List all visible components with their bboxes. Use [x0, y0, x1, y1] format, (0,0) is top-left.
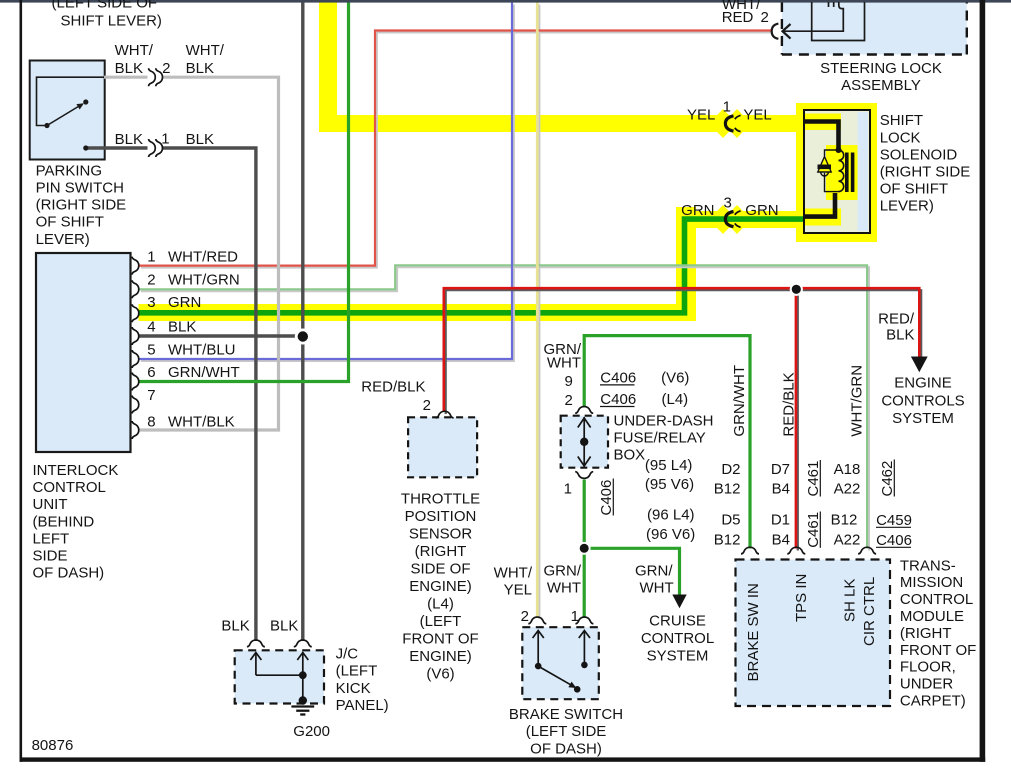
svg-text:(LEFT SIDE OF: (LEFT SIDE OF	[52, 0, 158, 12]
svg-text:BLK: BLK	[186, 60, 214, 77]
svg-text:MISSION: MISSION	[900, 574, 963, 591]
svg-text:LEVER): LEVER)	[36, 231, 90, 248]
svg-text:C459: C459	[876, 512, 912, 529]
svg-text:RED/: RED/	[878, 311, 915, 328]
svg-text:3: 3	[147, 294, 155, 311]
svg-text:TRANS-: TRANS-	[900, 557, 956, 574]
svg-text:9: 9	[564, 373, 572, 390]
svg-text:BLK: BLK	[168, 319, 196, 336]
svg-text:BLK: BLK	[221, 618, 249, 635]
svg-text:J/C: J/C	[336, 646, 359, 663]
svg-text:BLK: BLK	[186, 131, 214, 148]
svg-text:7: 7	[147, 387, 155, 404]
svg-text:2: 2	[162, 60, 170, 77]
svg-text:LEVER): LEVER)	[880, 198, 934, 215]
svg-text:A18: A18	[834, 461, 861, 478]
svg-text:PARKING: PARKING	[36, 163, 102, 180]
svg-text:C406: C406	[598, 480, 615, 516]
svg-text:2: 2	[521, 608, 529, 625]
svg-text:G200: G200	[293, 723, 330, 740]
svg-text:D5: D5	[721, 512, 740, 529]
svg-text:A22: A22	[834, 481, 861, 498]
svg-text:TPS IN: TPS IN	[793, 574, 810, 622]
svg-text:UNDER-DASH: UNDER-DASH	[614, 413, 714, 430]
svg-text:D1: D1	[771, 512, 790, 529]
svg-text:WHT: WHT	[547, 355, 581, 372]
svg-text:WHT: WHT	[547, 579, 581, 596]
svg-text:SENSOR: SENSOR	[409, 526, 473, 543]
svg-text:(RIGHT: (RIGHT	[415, 543, 467, 560]
svg-text:ENGINE: ENGINE	[894, 375, 952, 392]
svg-text:(L4): (L4)	[427, 596, 454, 613]
svg-text:BRAKE SWITCH: BRAKE SWITCH	[509, 706, 623, 723]
svg-text:FUSE/RELAY: FUSE/RELAY	[614, 430, 706, 447]
svg-text:CONTROLS: CONTROLS	[881, 392, 964, 409]
svg-text:2: 2	[147, 272, 155, 289]
svg-text:ENGINE): ENGINE)	[409, 648, 472, 665]
svg-text:4: 4	[147, 319, 155, 336]
svg-text:CONTROL: CONTROL	[900, 591, 973, 608]
svg-text:BRAKE SW IN: BRAKE SW IN	[745, 583, 762, 681]
svg-text:(V6): (V6)	[661, 369, 689, 386]
svg-text:SOLENOID: SOLENOID	[880, 146, 958, 163]
svg-text:(RIGHT: (RIGHT	[900, 625, 952, 642]
svg-text:WHT/GRN: WHT/GRN	[848, 365, 865, 437]
svg-text:SIDE: SIDE	[33, 547, 68, 564]
svg-text:(LEFT: (LEFT	[336, 663, 378, 680]
svg-text:CONTROL: CONTROL	[641, 630, 714, 647]
svg-text:WHT/: WHT/	[494, 565, 533, 582]
svg-text:YEL: YEL	[504, 581, 532, 598]
svg-text:WHT/GRN: WHT/GRN	[168, 272, 240, 289]
svg-text:BOX: BOX	[614, 447, 646, 464]
svg-text:B4: B4	[772, 532, 790, 549]
svg-text:B12: B12	[831, 512, 858, 529]
svg-text:WHT/BLU: WHT/BLU	[168, 342, 236, 359]
svg-text:YEL: YEL	[687, 107, 715, 124]
svg-text:WHT/BLK: WHT/BLK	[168, 414, 235, 431]
svg-text:PANEL): PANEL)	[336, 697, 389, 714]
svg-text:WHT/RED: WHT/RED	[168, 249, 238, 266]
svg-text:ENGINE): ENGINE)	[409, 578, 472, 595]
svg-text:A22: A22	[834, 532, 861, 549]
svg-text:GRN/: GRN/	[544, 563, 582, 580]
svg-text:5: 5	[147, 342, 155, 359]
svg-text:SH LK: SH LK	[842, 579, 859, 622]
svg-text:C406: C406	[600, 391, 636, 408]
svg-text:CRUISE: CRUISE	[649, 613, 706, 630]
svg-text:(95 V6): (95 V6)	[645, 476, 694, 493]
svg-text:(V6): (V6)	[426, 666, 454, 683]
svg-text:FRONT OF: FRONT OF	[900, 642, 976, 659]
svg-text:SYSTEM: SYSTEM	[647, 648, 709, 665]
svg-text:YEL: YEL	[743, 107, 771, 124]
svg-text:C406: C406	[876, 532, 912, 549]
svg-text:OF DASH): OF DASH)	[530, 740, 602, 757]
svg-text:WHT: WHT	[640, 579, 674, 596]
svg-text:LOCK: LOCK	[880, 129, 921, 146]
svg-text:ASSEMBLY: ASSEMBLY	[841, 77, 921, 94]
svg-text:CIR CTRL: CIR CTRL	[861, 577, 878, 646]
svg-text:1: 1	[147, 249, 155, 266]
svg-text:GRN/WHT: GRN/WHT	[168, 364, 240, 381]
svg-text:(96 L4): (96 L4)	[647, 507, 695, 524]
svg-text:POSITION: POSITION	[405, 508, 477, 525]
svg-text:1: 1	[723, 99, 731, 116]
svg-text:3: 3	[723, 195, 731, 212]
svg-text:BLK: BLK	[886, 327, 914, 344]
svg-text:LEFT: LEFT	[33, 530, 70, 547]
svg-text:OF SHIFT: OF SHIFT	[880, 181, 948, 198]
svg-text:(95 L4): (95 L4)	[645, 457, 693, 474]
svg-text:RED/BLK: RED/BLK	[361, 378, 425, 395]
svg-text:RED/BLK: RED/BLK	[781, 372, 798, 436]
svg-text:OF DASH): OF DASH)	[33, 565, 105, 582]
svg-text:C462: C462	[879, 461, 896, 497]
svg-text:D7: D7	[771, 461, 790, 478]
svg-text:1: 1	[571, 608, 579, 625]
svg-text:(RIGHT SIDE: (RIGHT SIDE	[880, 164, 971, 181]
svg-text:2: 2	[423, 397, 431, 414]
svg-text:PIN SWITCH: PIN SWITCH	[36, 180, 124, 197]
svg-text:2: 2	[761, 9, 769, 26]
svg-text:(LEFT SIDE: (LEFT SIDE	[526, 723, 607, 740]
svg-text:C461: C461	[805, 512, 822, 548]
svg-text:STEERING LOCK: STEERING LOCK	[820, 60, 942, 77]
svg-text:RED: RED	[722, 9, 754, 26]
svg-text:(BEHIND: (BEHIND	[33, 513, 95, 530]
svg-text:KICK: KICK	[336, 680, 371, 697]
svg-text:UNIT: UNIT	[33, 496, 68, 513]
svg-text:GRN/: GRN/	[635, 563, 673, 580]
svg-text:GRN: GRN	[168, 294, 201, 311]
svg-text:(96 V6): (96 V6)	[646, 526, 695, 543]
svg-text:FLOOR,: FLOOR,	[900, 659, 956, 676]
svg-text:SYSTEM: SYSTEM	[892, 410, 954, 427]
svg-text:SIDE OF: SIDE OF	[410, 561, 470, 578]
svg-text:UNDER: UNDER	[900, 676, 954, 693]
svg-text:BLK: BLK	[115, 60, 143, 77]
svg-text:CARPET): CARPET)	[900, 693, 966, 710]
svg-text:6: 6	[147, 364, 155, 381]
svg-text:(L4): (L4)	[662, 391, 689, 408]
svg-text:GRN/WHT: GRN/WHT	[731, 365, 748, 437]
svg-text:B12: B12	[714, 481, 741, 498]
svg-text:BLK: BLK	[270, 618, 298, 635]
svg-text:THROTTLE: THROTTLE	[401, 491, 480, 508]
svg-text:1: 1	[161, 131, 169, 148]
svg-text:C461: C461	[805, 461, 822, 497]
svg-text:MODULE: MODULE	[900, 608, 964, 625]
svg-text:WHT/: WHT/	[186, 42, 225, 59]
svg-text:GRN: GRN	[681, 202, 714, 219]
svg-text:(RIGHT SIDE: (RIGHT SIDE	[36, 197, 127, 214]
svg-text:INTERLOCK: INTERLOCK	[33, 462, 119, 479]
svg-text:WHT/: WHT/	[115, 42, 154, 59]
svg-text:1: 1	[564, 481, 572, 498]
svg-text:SHIFT LEVER): SHIFT LEVER)	[61, 12, 162, 29]
svg-text:B12: B12	[714, 532, 741, 549]
svg-text:(LEFT: (LEFT	[420, 613, 462, 630]
svg-text:8: 8	[147, 414, 155, 431]
svg-text:2: 2	[564, 392, 572, 409]
svg-text:FRONT OF: FRONT OF	[402, 631, 478, 648]
svg-text:OF SHIFT: OF SHIFT	[36, 214, 104, 231]
svg-text:D2: D2	[721, 461, 740, 478]
svg-text:SHIFT: SHIFT	[880, 112, 923, 129]
svg-text:80876: 80876	[32, 737, 74, 754]
svg-text:GRN: GRN	[745, 202, 778, 219]
svg-text:C406: C406	[600, 369, 636, 386]
svg-text:B4: B4	[772, 481, 790, 498]
svg-text:CONTROL: CONTROL	[33, 479, 106, 496]
svg-text:BLK: BLK	[115, 131, 143, 148]
